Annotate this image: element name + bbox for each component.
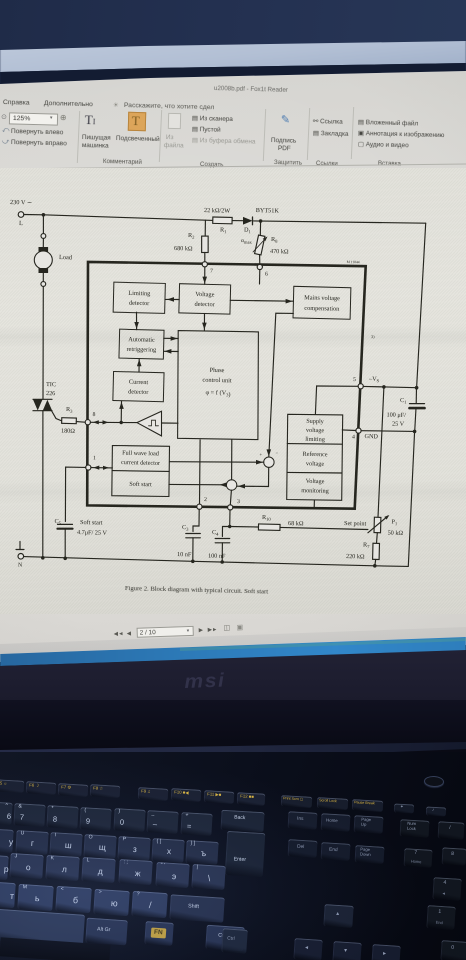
node 1 — [86, 465, 91, 470]
svg-text:3): 3) — [371, 334, 375, 339]
svg-text:Reference: Reference — [302, 451, 327, 459]
wire mains comp down to summing — [269, 313, 294, 457]
wire monitor box to bottom line — [313, 500, 315, 507]
phase control unit box — [178, 331, 259, 440]
svg-text:detector: detector — [129, 300, 150, 308]
svg-text:8: 8 — [92, 412, 95, 418]
load motor — [42, 215, 44, 234]
wire voltage det to mains comp — [230, 299, 293, 302]
diode D1 BYT51K — [243, 217, 253, 225]
svg-text:680 kΩ: 680 kΩ — [174, 245, 193, 252]
wire triac to bottom rail — [42, 411, 44, 558]
svg-text:Soft start: Soft start — [129, 481, 152, 489]
svg-text:50 kΩ: 50 kΩ — [388, 530, 404, 537]
wire node1 to C5 — [65, 467, 85, 521]
node 7 — [202, 262, 207, 267]
wire node1 to full wave box — [91, 467, 112, 469]
wire S1 to S2 — [237, 467, 269, 486]
resistor R1 22k/2W — [213, 217, 232, 224]
wire -VS rail — [317, 385, 359, 387]
node N terminal — [16, 542, 24, 550]
automatic retriggering box — [119, 329, 164, 359]
svg-text:αmax: αmax — [241, 238, 253, 245]
svg-text:R2: R2 — [188, 232, 195, 240]
wire gnd — [342, 429, 356, 432]
svg-text:Set point: Set point — [344, 520, 367, 528]
svg-text:Voltage: Voltage — [195, 291, 214, 298]
capacitor C4 100nF — [215, 538, 230, 540]
resistor R7 220k — [376, 533, 379, 544]
svg-text:100 μF/: 100 μF/ — [386, 412, 406, 419]
svg-text:compensation: compensation — [304, 305, 340, 313]
svg-text:detector: detector — [194, 301, 215, 309]
node 8 gate — [85, 420, 90, 425]
svg-text:R7: R7 — [363, 542, 370, 550]
svg-text:Soft start: Soft start — [80, 519, 103, 527]
svg-text:Mains voltage: Mains voltage — [304, 294, 340, 302]
wire phase unit down to node2 — [199, 440, 202, 504]
svg-text:R10: R10 — [262, 514, 272, 522]
wire node7 to voltage detector — [204, 267, 206, 284]
wire top rail — [43, 215, 212, 221]
wire voltage det down to phase unit — [203, 314, 205, 331]
wire gate junction up to current det — [120, 401, 122, 422]
svg-text:226: 226 — [46, 390, 55, 397]
svg-text:−: − — [275, 451, 278, 456]
svg-text:6: 6 — [265, 272, 268, 278]
node 3 — [228, 505, 233, 510]
svg-text:470 kΩ: 470 kΩ — [270, 248, 289, 255]
wire node2 to C3 — [193, 509, 199, 531]
node 5 -VS — [358, 384, 363, 389]
wire right rail down — [417, 223, 426, 388]
svg-text:4: 4 — [352, 435, 355, 441]
svg-text:M 11844: M 11844 — [347, 260, 360, 264]
svg-text:voltage: voltage — [306, 427, 325, 434]
wires retriggering to phase unit — [164, 337, 179, 339]
svg-text:Full wave load: Full wave load — [122, 450, 160, 458]
svg-text:BYT51K: BYT51K — [256, 207, 280, 215]
mains voltage compensation box — [293, 286, 351, 319]
svg-text:230 V ∼: 230 V ∼ — [10, 199, 32, 207]
svg-text:GND: GND — [364, 433, 378, 440]
node 4 GND — [356, 428, 361, 433]
wire phase unit down through S2 to node3 — [231, 440, 233, 480]
wire to supply box top — [315, 386, 316, 414]
svg-text:+: + — [259, 452, 262, 457]
svg-text:C4: C4 — [212, 529, 219, 537]
current detector box — [113, 371, 164, 401]
svg-text:100 nF: 100 nF — [208, 553, 226, 560]
svg-text:180Ω: 180Ω — [61, 428, 75, 435]
driver amp triangle — [137, 411, 162, 436]
svg-text:10 nF: 10 nF — [177, 551, 192, 558]
svg-text:–VS: –VS — [368, 375, 380, 383]
svg-text:Automatic: Automatic — [128, 336, 155, 344]
summing node S1 — [264, 457, 274, 467]
wire voltage det to limiting det — [165, 298, 179, 300]
svg-text:Load: Load — [59, 254, 73, 261]
svg-text:7: 7 — [210, 269, 213, 275]
full wave load current detector box — [112, 446, 170, 497]
right rail lower segment — [408, 431, 414, 566]
wire S2 output left into soft start — [169, 483, 227, 485]
svg-text:R3: R3 — [66, 406, 73, 414]
svg-text:L: L — [19, 220, 23, 227]
capacitor C1 — [410, 403, 425, 405]
svg-text:N: N — [18, 563, 23, 569]
svg-text:220 kΩ: 220 kΩ — [346, 553, 365, 560]
resistor R2 680k — [204, 220, 206, 236]
wire L to top rail — [24, 214, 44, 216]
svg-text:Limiting: Limiting — [128, 290, 151, 298]
wire current det to retriggering — [138, 359, 140, 373]
wire full wave box to S1 — [170, 461, 264, 464]
svg-text:C5: C5 — [54, 518, 61, 526]
resistor R8 470k adjustable — [259, 221, 261, 236]
wire amp to phase unit — [162, 422, 179, 424]
svg-text:voltage: voltage — [306, 460, 325, 467]
summing node S2 — [226, 480, 236, 490]
svg-text:P1: P1 — [391, 519, 398, 527]
bottom rail — [24, 557, 409, 567]
wire limiting det to retriggering — [136, 312, 138, 330]
svg-text:5: 5 — [353, 377, 356, 383]
wire R3 to node 8 — [76, 421, 85, 424]
voltage detector box — [179, 284, 231, 314]
svg-text:current detector: current detector — [121, 459, 160, 467]
svg-text:Voltage: Voltage — [306, 478, 325, 485]
capacitor C3 10nF — [186, 533, 201, 535]
svg-text:3: 3 — [237, 499, 240, 505]
svg-text:R1: R1 — [220, 227, 227, 235]
resistor R10 68k — [230, 526, 259, 529]
svg-text:C1: C1 — [400, 397, 407, 405]
svg-text:Phase: Phase — [210, 367, 225, 374]
svg-text:Current: Current — [129, 379, 149, 386]
svg-text:Supply: Supply — [306, 418, 325, 425]
svg-text:detector: detector — [128, 388, 149, 396]
svg-text:control unit: control unit — [202, 377, 232, 385]
svg-text:TIC: TIC — [46, 381, 56, 388]
capacitor C5 soft start — [58, 523, 73, 525]
svg-text:2: 2 — [204, 497, 207, 503]
limiting detector box — [113, 282, 165, 313]
wire load to triac — [42, 286, 44, 399]
supply/reference/monitoring box — [287, 414, 343, 500]
svg-text:φ = f (V3): φ = f (V3) — [205, 389, 230, 398]
wire node3 to C4 — [222, 510, 230, 537]
svg-text:R8: R8 — [271, 236, 278, 244]
wire triac gate — [50, 408, 62, 421]
svg-text:4.7μF/ 25 V: 4.7μF/ 25 V — [77, 529, 108, 537]
svg-text:limiting: limiting — [305, 436, 325, 443]
IC outer box U2008B — [87, 262, 366, 509]
node 2 — [197, 504, 202, 509]
svg-text:22 kΩ/2W: 22 kΩ/2W — [204, 207, 230, 215]
svg-text:25 V: 25 V — [392, 421, 405, 428]
svg-text:1: 1 — [93, 456, 96, 462]
svg-text:monitoring: monitoring — [301, 487, 329, 495]
node 6 — [257, 264, 262, 269]
svg-text:68 kΩ: 68 kΩ — [288, 520, 304, 527]
resistor R3 180ohm — [62, 418, 77, 424]
wire C1 stubs — [415, 388, 417, 432]
svg-text:D1: D1 — [244, 227, 252, 235]
svg-text:C3: C3 — [182, 524, 189, 532]
svg-text:retriggering: retriggering — [126, 346, 157, 354]
